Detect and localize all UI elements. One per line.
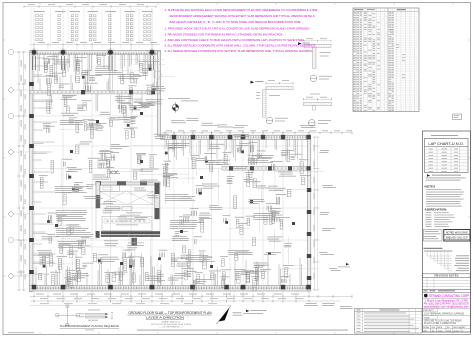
north arrow compass: [219, 308, 230, 322]
core right wall: [155, 183, 160, 219]
label stacks right of wing: [320, 149, 329, 152]
hanging rebar extents around band y92: [39, 78, 41, 90]
bar mark fan leaders: [426, 252, 428, 256]
svg-text:(-- ON THE DRAWING --): (-- ON THE DRAWING --): [160, 325, 183, 328]
wall rebar tick texture: [31, 53, 159, 55]
repeated cluster row mid lower: [42, 256, 45, 264]
diamond legend box: [98, 160, 110, 168]
top wall: [30, 51, 161, 55]
x-marks: [109, 170, 112, 173]
core stair treads: [106, 207, 120, 211]
note line under lap chart: [427, 174, 430, 176]
svg-text:4. BAR ARE CONTINUED CHECK TO: 4. BAR ARE CONTINUED CHECK TO BAR LENGTH…: [165, 38, 306, 42]
core inner labels: [126, 212, 142, 215]
column bar pairs under circles: [32, 56, 34, 70]
hanging rebar extents below top wall: [37, 54, 39, 83]
grid verticals lower-right block: [173, 131, 175, 296]
section circle 2: [266, 117, 273, 124]
rebar shape legend box chains: [34, 10, 45, 13]
svg-text:05/21: 05/21: [438, 330, 444, 332]
revision empty rows: [423, 279, 471, 281]
svg-text:LAP CHART-U.N.O.: LAP CHART-U.N.O.: [428, 141, 464, 146]
bar mark example: [424, 250, 452, 253]
hook detail 1: [304, 44, 331, 47]
columns band y168: [229, 166, 233, 170]
svg-text:LGA TERMINAL PARKING GARAGE: LGA TERMINAL PARKING GARAGE: [424, 313, 464, 316]
revision notes header: [423, 274, 471, 278]
hanging rebar extents below wing top wall: [164, 140, 166, 149]
columns left wall: [29, 82, 34, 86]
section target symbol: [172, 104, 178, 110]
top dimension line above wall: [30, 44, 160, 46]
svg-text:5. ALL REBAR DETAILED COORDINA: 5. ALL REBAR DETAILED COORDINATE WITH SH…: [165, 44, 316, 48]
bottom dimension rows: [30, 296, 352, 298]
logo row magenta: [424, 294, 428, 298]
bottom file path text: [137, 329, 348, 332]
right dimension lines of wing: [314, 137, 316, 290]
leader lines: [273, 229, 275, 251]
core bottom dark double band: [101, 231, 160, 234]
hook detail 3: [304, 103, 332, 106]
scattered label stacks in plan: [256, 185, 266, 188]
svg-text:www.strandcc.com info@strandc: www.strandcc.com info@strandcc.com: [424, 305, 469, 308]
wing top dimension line: [162, 132, 352, 134]
no-date-revision header: [423, 288, 471, 290]
svg-text:S-201: S-201: [454, 330, 460, 332]
title row: [423, 316, 438, 319]
project row: [423, 308, 438, 311]
small box below BBS: [453, 114, 462, 120]
core top band: [96, 182, 160, 185]
caption above lap chart: [431, 134, 458, 137]
interior wall band y168 right: [222, 167, 310, 171]
interior wall band y92: [30, 91, 160, 94]
svg-text:2. PROVIDED HOOK SECTION AT CR: 2. PROVIDED HOOK SECTION AT CRITICAL CON…: [165, 26, 310, 30]
columns bottom wall: [32, 285, 37, 290]
legend top dimension line: [24, 6, 156, 8]
note marker bottom left of wing: [246, 310, 249, 313]
left wall: [30, 51, 33, 292]
svg-text:LAYER A DIRECTION: LAYER A DIRECTION: [146, 315, 184, 319]
bottom data row: [430, 325, 432, 332]
core lower cell: [102, 217, 152, 231]
dark tee below core: [132, 238, 137, 246]
title block column frame: [423, 131, 471, 332]
svg-text:SCL: SCL: [447, 327, 451, 329]
svg-text:DATE: DATE: [437, 326, 443, 329]
small room above core: [100, 185, 120, 191]
columns right wall: [307, 188, 311, 192]
svg-text:3. PROVIDED STANDEES FOR TOP R: 3. PROVIDED STANDEES FOR TOP REBAR AS PE…: [165, 33, 283, 37]
label stacks above wing wall: [171, 119, 185, 122]
svg-text:MR: MR: [424, 330, 428, 332]
svg-text:NTS: NTS: [447, 330, 452, 332]
bar bending schedule table: [353, 8, 419, 112]
svg-text:SLAB REINFORCEMENT PLACING SEQ: SLAB REINFORCEMENT PLACING SEQUENCE: [60, 324, 119, 328]
core left wall: [96, 182, 100, 208]
black note mark right of wing: [346, 263, 349, 265]
hanging rebar extents above bottom wall: [35, 266, 37, 285]
svg-text:1. SLAB DETAILING SHOWING EACH: 1. SLAB DETAILING SHOWING EACH LAYER REI…: [165, 8, 318, 12]
columns top wall (filled circles): [32, 50, 37, 55]
section circle 1: [310, 75, 317, 82]
multi-line note blocks: [55, 185, 89, 188]
horizontal rebar extents from left wall: [33, 57, 49, 59]
lap chart table: [425, 139, 469, 173]
placing sequence arrow bars: [88, 309, 100, 312]
columns wing top wall: [172, 135, 176, 140]
svg-text:W/BLACK CALL OUT: W/BLACK CALL OUT: [446, 236, 469, 239]
svg-text:REINFORCEMENT ARRANGEMENT SHOW: REINFORCEMENT ARRANGEMENT SHOWING WITH E…: [170, 14, 315, 18]
core x-braces: [100, 191, 126, 204]
svg-text:ABBREVIATION: ABBREVIATION: [425, 208, 447, 212]
svg-text:PLAN LAYER A DIRECTION: PLAN LAYER A DIRECTION: [424, 322, 456, 325]
repeated cluster row above bottom wall: [39, 273, 42, 279]
svg-text:DRWN: DRWN: [423, 327, 429, 329]
svg-text:STRAND CONSULTING CORP: STRAND CONSULTING CORP: [429, 294, 469, 298]
right wing top wall: [161, 135, 311, 139]
left dimension lines: [18, 52, 20, 290]
label stacks below right dims: [305, 302, 316, 305]
svg-text:BAR LENGTH DETAILED 'A', 'B',: BAR LENGTH DETAILED 'A', 'B', 'C' AND 'D…: [170, 20, 301, 24]
extra dark squares: [70, 150, 73, 153]
svg-text:6. ALL REBAR DETAILED COORDINA: 6. ALL REBAR DETAILED COORDINATE WITH EX…: [165, 49, 313, 53]
right wall: [308, 135, 311, 291]
noted box left: [424, 230, 443, 242]
grid bubbles left edge: [8, 87, 14, 93]
svg-text:REVISION NOTES: REVISION NOTES: [435, 274, 459, 278]
bar mark annotation header: [424, 248, 443, 249]
placing sequence cross diagram: [56, 314, 79, 316]
revision issue table: [355, 309, 423, 334]
svg-text:DWG No.: DWG No.: [453, 327, 462, 329]
columns interior band y92: [81, 90, 85, 94]
hook detail 2: [266, 87, 293, 90]
bottom wall: [30, 286, 311, 292]
interior vertical wall x110: [110, 54, 113, 92]
grid verticals upper block: [33, 46, 35, 296]
svg-text:NOTES: NOTES: [425, 184, 436, 188]
legend grid extension verticals: [30, 8, 32, 48]
elevator core outline: [96, 182, 160, 236]
noted box right (bold): [444, 230, 470, 242]
rebar call-out clusters (texture): [98, 58, 101, 65]
section circle 3: [309, 120, 316, 127]
grid horizontals: [30, 91, 160, 93]
core bottom-left stub: [96, 231, 100, 238]
svg-text:NOTED W/O ISSUE: NOTED W/O ISSUE: [446, 231, 468, 234]
upper block right wall: [157, 51, 160, 135]
